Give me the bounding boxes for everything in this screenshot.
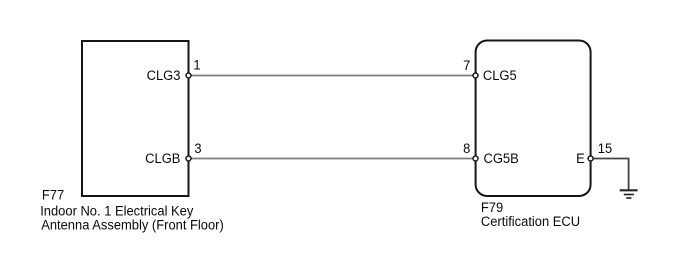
svg-text:CLG5: CLG5 bbox=[483, 68, 517, 84]
svg-text:8: 8 bbox=[463, 141, 470, 157]
svg-text:F77: F77 bbox=[42, 187, 64, 203]
svg-text:E: E bbox=[576, 151, 585, 167]
svg-text:15: 15 bbox=[598, 141, 612, 157]
svg-text:3: 3 bbox=[194, 141, 201, 157]
svg-text:7: 7 bbox=[463, 58, 470, 74]
svg-text:Indoor No. 1 Electrical Key: Indoor No. 1 Electrical Key bbox=[40, 203, 193, 219]
svg-text:Antenna Assembly (Front Floor): Antenna Assembly (Front Floor) bbox=[41, 217, 224, 233]
svg-text:CLGB: CLGB bbox=[145, 151, 180, 167]
svg-text:CLG3: CLG3 bbox=[147, 68, 181, 84]
svg-text:Certification ECU: Certification ECU bbox=[481, 214, 580, 230]
svg-text:CG5B: CG5B bbox=[484, 151, 519, 167]
svg-text:1: 1 bbox=[193, 57, 200, 73]
